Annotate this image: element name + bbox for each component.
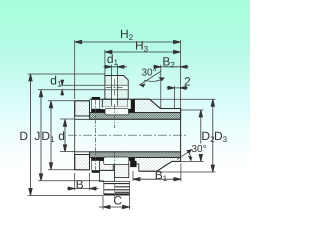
svg-text:C: C: [113, 194, 122, 208]
svg-text:H3: H3: [135, 39, 149, 54]
svg-text:30°: 30°: [142, 68, 157, 79]
svg-text:d: d: [58, 129, 65, 143]
svg-text:D1: D1: [41, 129, 55, 144]
svg-text:d1: d1: [107, 52, 119, 67]
svg-text:d1: d1: [50, 74, 62, 89]
svg-text:H2: H2: [120, 27, 134, 42]
svg-text:J: J: [34, 129, 40, 143]
svg-text:30°: 30°: [192, 144, 207, 155]
svg-text:B1: B1: [155, 168, 168, 183]
svg-text:B2: B2: [162, 55, 175, 70]
svg-text:B: B: [76, 178, 84, 192]
svg-text:D: D: [19, 129, 28, 143]
svg-text:2: 2: [184, 75, 191, 89]
svg-text:D3: D3: [214, 129, 228, 144]
